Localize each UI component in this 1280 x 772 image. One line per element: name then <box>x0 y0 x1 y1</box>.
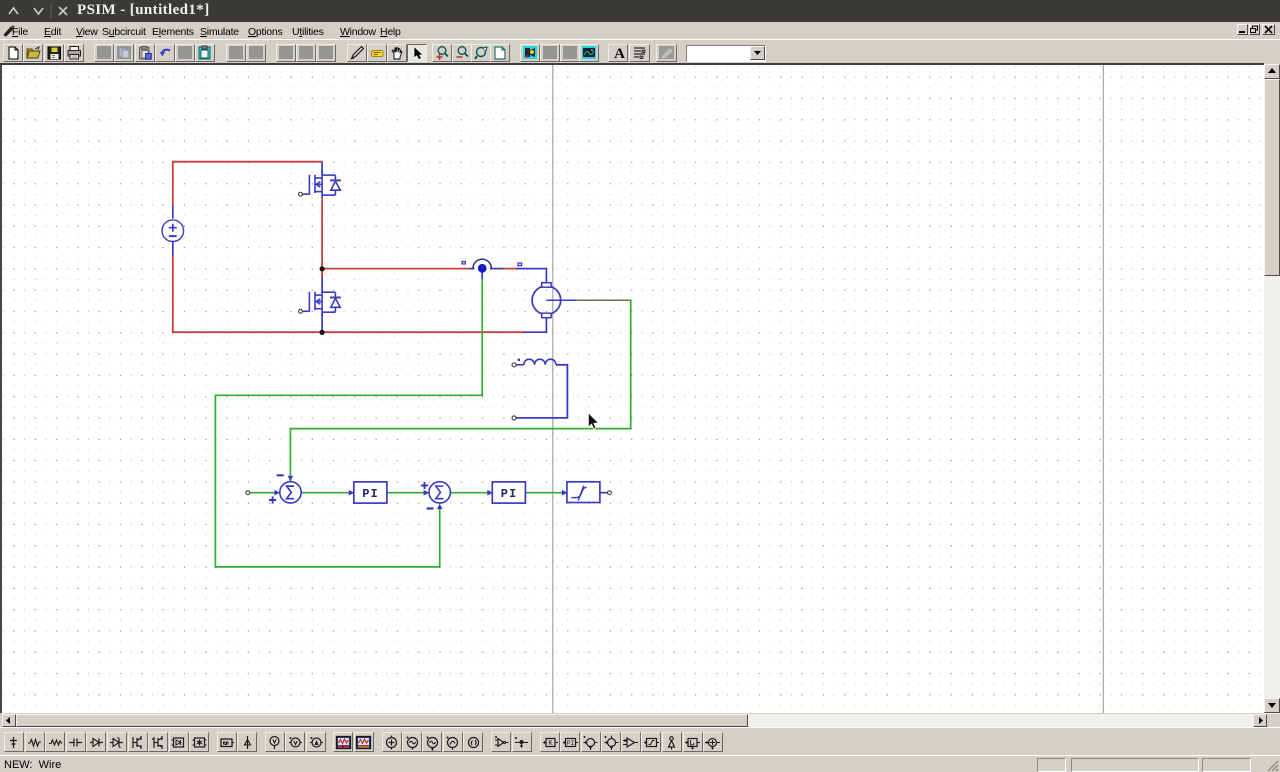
mouse cursor <box>588 413 598 429</box>
PI block PI2 <box>487 482 525 503</box>
wire green down into SJ1 <box>289 428 291 481</box>
motor M (DC machine) <box>532 283 576 318</box>
element toolbar <box>0 727 1280 756</box>
limiter block LIM <box>562 482 600 503</box>
node junction bottom <box>320 330 325 335</box>
status bar <box>0 755 1280 772</box>
svg-text:PI: PI <box>566 740 574 747</box>
inductor L1 (field winding) <box>516 359 567 418</box>
wire red left vertical lower <box>172 256 174 334</box>
wire red between MOSFETs <box>321 200 323 268</box>
wire green feedback horizontal <box>290 428 632 430</box>
wire red top horizontal <box>172 161 323 163</box>
horizontal scrollbar <box>2 714 1267 727</box>
wire red sensor to motor branch <box>502 268 518 270</box>
menu bar <box>0 22 1280 39</box>
wire navy limiter to terminal <box>600 492 608 494</box>
mdi window buttons <box>1237 24 1248 35</box>
svg-text:A: A <box>614 46 625 61</box>
wire navy sensor left lead <box>470 268 475 270</box>
wire green SJ1 to PI1 <box>301 492 353 494</box>
wire red below mid junction <box>321 271 323 277</box>
summing junction SJ2 <box>421 482 451 509</box>
page boundary line 1 <box>552 65 554 713</box>
current sensor ISEN <box>462 259 522 272</box>
wire green left vertical <box>214 395 216 568</box>
PI block PI1 <box>349 482 387 503</box>
voltage source VDC <box>162 206 184 256</box>
wire navy below sensor dot <box>481 272 483 280</box>
summing junction SJ1 <box>269 475 301 503</box>
wire navy to motor top corner <box>517 269 547 284</box>
terminal left <box>246 491 250 495</box>
wire red bottom horizontal <box>172 331 524 333</box>
wire red junction to sensor <box>323 268 471 270</box>
wire green PI1 to SJ2 <box>387 492 429 494</box>
transistor Q1 (MOSFET with body diode) <box>303 174 341 200</box>
wire navy Q2 drain lead <box>321 277 323 293</box>
wire green terminal to SJ1 <box>250 492 280 494</box>
page boundary line 2 <box>1102 65 1104 713</box>
wire green horizontal mid <box>215 394 483 396</box>
wire navy motor bottom lead <box>523 317 546 332</box>
wire navy Q2 source lead <box>321 313 323 333</box>
wire green bottom horizontal <box>215 566 441 568</box>
wire green sensor output down <box>481 279 483 396</box>
wire green PI2 to limiter <box>526 492 567 494</box>
wire green SJ2 to PI2 <box>450 492 492 494</box>
wire olive overlap motor output <box>561 299 630 301</box>
transistor Q2 (MOSFET with body diode) <box>303 291 341 317</box>
wire green right vertical from motor <box>630 299 632 429</box>
terminal right <box>608 491 612 495</box>
wire navy sensor right lead <box>490 268 503 270</box>
wire green up into SJ2 <box>439 507 441 568</box>
title bar <box>0 0 1280 22</box>
node junction mid <box>320 266 325 271</box>
toolbar <box>0 39 1280 64</box>
vertical scrollbar <box>1264 64 1280 714</box>
wire navy Q1 drain lead <box>321 162 323 175</box>
wire red left vertical upper <box>172 161 174 207</box>
